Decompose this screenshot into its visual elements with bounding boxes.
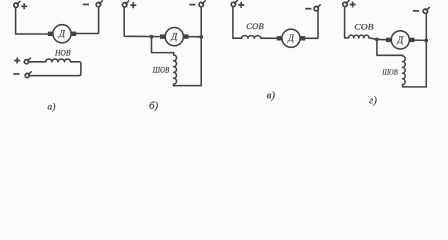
- svg-text:Д: Д: [396, 35, 404, 45]
- svg-text:ШОВ: ШОВ: [152, 66, 169, 75]
- svg-text:Д: Д: [58, 29, 66, 39]
- svg-text:СОВ: СОВ: [354, 22, 373, 31]
- svg-text:НОВ: НОВ: [54, 49, 70, 58]
- svg-text:Д: Д: [287, 33, 295, 43]
- svg-text:а): а): [47, 102, 55, 113]
- svg-text:ШОВ: ШОВ: [381, 68, 398, 77]
- svg-text:Д: Д: [170, 32, 178, 42]
- svg-text:СОВ: СОВ: [246, 22, 264, 31]
- svg-text:б): б): [149, 100, 159, 112]
- svg-text:г): г): [369, 94, 377, 106]
- svg-text:в): в): [267, 89, 276, 101]
